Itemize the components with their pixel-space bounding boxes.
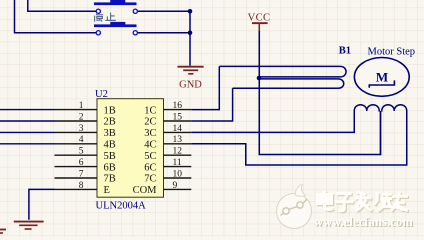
svg-text:13: 13 — [173, 135, 183, 145]
svg-text:GND: GND — [179, 79, 202, 90]
svg-text:1: 1 — [79, 101, 84, 111]
pin 2 (2B) — [55, 120, 98, 122]
svg-text:www.elecfans.com: www.elecfans.com — [314, 215, 413, 229]
pin 9 (COM) — [164, 188, 192, 190]
ground symbol (button net) — [178, 67, 204, 74]
svg-text:16: 16 — [173, 101, 183, 111]
pin 11 (6C) — [164, 166, 192, 168]
button label 停止 (drawn strokes) — [95, 12, 116, 21]
svg-text:4C: 4C — [144, 140, 156, 151]
upper stepper winding (hairpin coil) — [219, 66, 346, 77]
pushbutton S? top contact bar — [94, 2, 137, 5]
svg-text:6C: 6C — [144, 162, 156, 173]
wire into pin 2 from left edge — [0, 120, 55, 122]
wire into pin 3 from left edge — [0, 131, 55, 133]
svg-text:5: 5 — [79, 147, 84, 157]
wire pin13 to lower winding terminal B — [191, 112, 406, 165]
svg-text:2C: 2C — [144, 117, 156, 128]
svg-text:6B: 6B — [104, 162, 116, 173]
pin 8 (E) — [55, 188, 98, 190]
pin 10 (7C) — [164, 177, 192, 179]
wire from button top-right pin to GND net — [137, 10, 190, 12]
pin 12 (5C) — [164, 154, 192, 156]
svg-text:2B: 2B — [104, 117, 116, 128]
wire net from left edge to stop button bottom-left pin — [15, 0, 97, 33]
pin 15 (2C) — [164, 120, 192, 122]
svg-text:4: 4 — [79, 135, 84, 145]
wire net from left edge to stop button top-left pin — [28, 0, 96, 11]
pin 1 (1B) — [55, 109, 98, 111]
op IC U2 body — [97, 99, 164, 198]
wire from button bottom-right pin to GND net — [137, 32, 190, 34]
svg-text:3C: 3C — [144, 128, 156, 139]
lower stepper winding (coil bumps) — [354, 105, 379, 112]
svg-text:1C: 1C — [144, 105, 156, 116]
svg-text:U2: U2 — [95, 89, 108, 100]
svg-text:3: 3 — [79, 124, 84, 134]
wire pin15 to upper winding terminal B — [191, 88, 232, 121]
pin 16 (1C) — [164, 109, 192, 111]
wire pin8 (E) to ground — [29, 189, 55, 219]
svg-text:B1: B1 — [339, 46, 351, 57]
pin 6 (6B) — [55, 166, 98, 168]
svg-text:9: 9 — [173, 181, 178, 191]
svg-text:COM: COM — [133, 185, 158, 196]
pushbutton pin circles — [96, 9, 100, 13]
svg-text:5C: 5C — [144, 151, 156, 162]
svg-text:3B: 3B — [104, 128, 116, 139]
svg-text:7C: 7C — [144, 174, 156, 185]
junction dot at button top-right — [188, 9, 193, 14]
svg-text:ULN2004A: ULN2004A — [96, 201, 147, 212]
watermark 电子发烧友 (drawn strokes) — [319, 192, 409, 212]
pin 4 (4B) — [55, 143, 98, 145]
svg-text:6: 6 — [79, 158, 84, 168]
svg-text:8: 8 — [79, 181, 84, 191]
pin 7 (7B) — [55, 177, 98, 179]
junction dot at button bottom-right — [188, 30, 193, 35]
svg-text:7: 7 — [79, 169, 84, 179]
wire into pin 1 from left edge — [0, 109, 55, 111]
svg-text:1B: 1B — [104, 105, 116, 116]
svg-text:4B: 4B — [104, 140, 116, 151]
svg-text:5B: 5B — [104, 151, 116, 162]
svg-text:VCC: VCC — [248, 12, 271, 23]
wire into pin 4 from left edge — [0, 143, 55, 145]
wire pin16 to upper winding terminal A — [191, 66, 219, 109]
pin 14 (3C) — [164, 131, 192, 133]
motor B1 circle — [354, 58, 409, 97]
svg-text:E: E — [104, 185, 110, 196]
junction dot on VCC net (upper winding center tap) — [257, 76, 262, 81]
svg-text:Motor Step: Motor Step — [368, 46, 416, 57]
pin 5 (5B) — [55, 154, 98, 156]
pushbutton bottom contact bar — [94, 24, 137, 27]
svg-text:M: M — [376, 70, 388, 85]
svg-text:14: 14 — [173, 124, 183, 134]
svg-text:7B: 7B — [104, 174, 116, 185]
svg-text:2: 2 — [79, 112, 84, 122]
watermark logo circle — [277, 185, 312, 229]
svg-text:15: 15 — [173, 112, 183, 122]
corner mark (cropped symbol) — [0, 230, 6, 234]
wire pin14 to lower winding terminal A — [191, 112, 354, 132]
ground symbol (pin 8) — [14, 222, 44, 229]
svg-text:12: 12 — [173, 147, 183, 157]
svg-text:10: 10 — [173, 169, 183, 179]
vertical GND net wire — [189, 11, 191, 66]
VCC net wire down and to lower winding center tap — [259, 31, 380, 155]
svg-text:11: 11 — [173, 158, 182, 168]
pin 3 (3B) — [55, 131, 98, 133]
pin 13 (4C) — [164, 143, 192, 145]
